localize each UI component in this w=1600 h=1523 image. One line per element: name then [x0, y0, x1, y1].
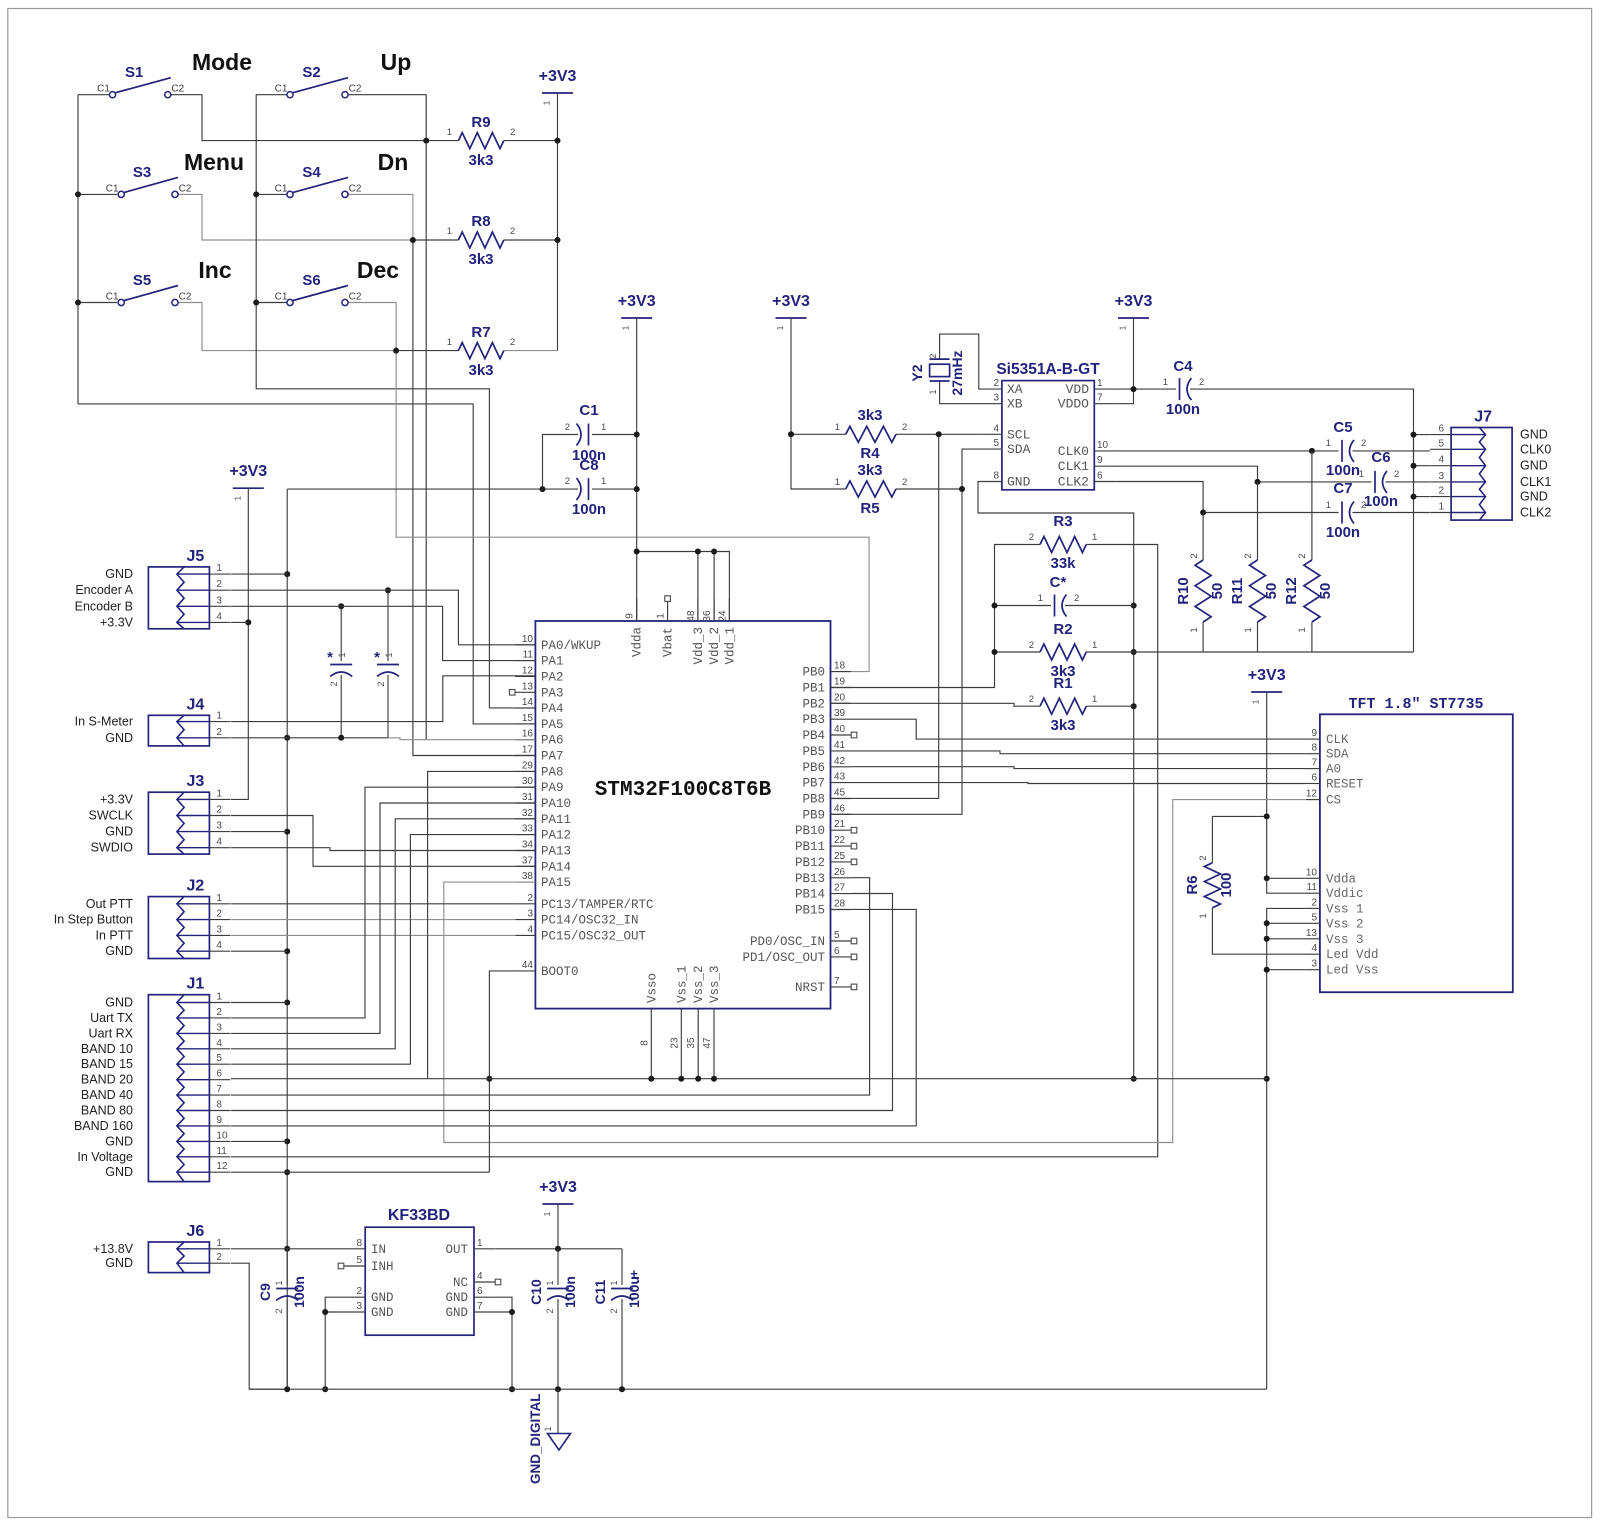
svg-text:PA11: PA11	[541, 813, 571, 827]
svg-text:7: 7	[1097, 393, 1103, 404]
svg-text:PB5: PB5	[802, 745, 825, 759]
wire J7 gnd collector	[1414, 435, 1430, 497]
junction Vss1	[678, 1076, 684, 1082]
svg-text:11: 11	[523, 650, 534, 661]
wire R4 pin2 SCL	[896, 433, 980, 435]
wire Encoder A to PA0	[231, 590, 535, 645]
svg-text:2: 2	[527, 893, 533, 904]
svg-text:4: 4	[1311, 943, 1317, 954]
svg-text:6: 6	[834, 946, 840, 957]
svg-text:7: 7	[477, 1301, 483, 1312]
wire SWCLK to PA14	[231, 816, 535, 867]
IC U3 TFT pins	[1306, 728, 1379, 978]
svg-text:C2: C2	[349, 84, 362, 95]
svg-text:2: 2	[902, 477, 907, 488]
label Dec	[357, 257, 399, 283]
svg-text:Up: Up	[381, 49, 412, 75]
svg-text:43: 43	[834, 772, 846, 783]
connector J7	[1430, 409, 1512, 521]
wire S4 C1 stub	[256, 193, 286, 195]
svg-text:Vdd_3: Vdd_3	[692, 627, 706, 665]
wire Vss3 down	[713, 1031, 715, 1079]
wire J1p12 row	[231, 1171, 489, 1173]
svg-text:C10: C10	[528, 1279, 544, 1305]
IC U2 STM32F100C8T6B box	[535, 621, 830, 1009]
wire gnd digital stem	[557, 1389, 559, 1433]
wire S2 C2 to R9	[348, 95, 426, 141]
wire Vdda rail	[636, 318, 638, 621]
svg-text:S1: S1	[125, 64, 143, 81]
wire R4 pin1	[791, 433, 846, 435]
wire In Step to PC14	[231, 919, 515, 921]
junction gnd J1p1	[284, 1000, 290, 1006]
svg-text:4: 4	[216, 1038, 222, 1049]
wire S1 C1 feed	[78, 94, 109, 96]
svg-text:1: 1	[1198, 913, 1209, 918]
wire CLK2 cap to J7	[1353, 512, 1430, 514]
wire R9 pin1	[426, 140, 458, 142]
wire R4 rail to R5	[791, 434, 846, 489]
svg-text:+: +	[630, 1266, 638, 1281]
svg-text:1: 1	[447, 127, 452, 138]
svg-text:4: 4	[216, 611, 222, 622]
svg-text:R6: R6	[1184, 875, 1201, 894]
svg-text:2: 2	[565, 422, 570, 433]
svg-text:Vddic: Vddic	[1326, 887, 1364, 901]
wire left bus lower to PA5	[78, 404, 535, 724]
svg-text:PC15/OSC32_OUT: PC15/OSC32_OUT	[541, 929, 647, 943]
wire R6 bottom to LedVdd	[1212, 908, 1306, 954]
svg-text:1: 1	[835, 422, 840, 433]
wire S2 C1 bus to PA4	[256, 95, 535, 708]
wire KF gnd7	[495, 1311, 512, 1313]
svg-text:PB0: PB0	[802, 666, 825, 680]
svg-text:C1: C1	[275, 84, 288, 95]
junction VDD rail	[1131, 386, 1137, 392]
svg-text:2: 2	[928, 353, 938, 358]
svg-text:2: 2	[216, 1252, 222, 1263]
svg-text:+3V3: +3V3	[1248, 667, 1286, 684]
wire Cstar pin2	[1065, 605, 1134, 607]
wire R1 pin1	[1086, 705, 1133, 707]
svg-text:12: 12	[522, 665, 534, 676]
svg-text:10: 10	[1097, 440, 1109, 451]
svg-text:J7: J7	[1474, 409, 1492, 426]
svg-text:1: 1	[1092, 694, 1097, 705]
svg-text:1: 1	[656, 613, 667, 619]
svg-text:Encoder B: Encoder B	[75, 599, 133, 613]
svg-text:C8: C8	[579, 457, 598, 474]
svg-text:2: 2	[902, 422, 907, 433]
junction C8 pin1 rail	[634, 486, 640, 492]
svg-text:GND: GND	[105, 1165, 133, 1179]
svg-text:9: 9	[1311, 728, 1317, 739]
wire BOOT0 down	[489, 971, 515, 1172]
svg-text:21: 21	[834, 819, 846, 830]
wire SWDIO to PA13	[231, 848, 535, 851]
svg-text:Inc: Inc	[198, 257, 231, 283]
wire R1 pin2 PB2	[831, 703, 1041, 706]
wire KF gnd3	[325, 1311, 344, 1313]
wire TFT Vdda	[1267, 877, 1306, 879]
resistor R9	[447, 114, 516, 169]
svg-text:BAND 15: BAND 15	[81, 1057, 133, 1071]
capacitor C10	[528, 1276, 578, 1313]
svg-text:2: 2	[216, 1007, 222, 1018]
svg-text:100n: 100n	[1326, 524, 1360, 541]
resistor R10	[1175, 553, 1226, 632]
svg-text:10: 10	[216, 1130, 228, 1141]
svg-text:1: 1	[216, 1238, 222, 1249]
capacitor C4	[1163, 358, 1205, 418]
wire XA crystal loop	[940, 334, 980, 389]
resistor R2	[1029, 621, 1098, 680]
svg-text:INH: INH	[371, 1260, 394, 1274]
svg-text:GND: GND	[445, 1291, 468, 1305]
wire XB crystal	[940, 381, 980, 404]
svg-text:25: 25	[834, 851, 846, 862]
wire J5p1 gnd	[231, 573, 287, 575]
svg-text:PA13: PA13	[541, 845, 571, 859]
junction gnd J2p4	[284, 948, 290, 954]
power +3V3 TFT	[1248, 667, 1286, 704]
svg-text:2: 2	[216, 579, 222, 590]
svg-text:PA2: PA2	[541, 670, 564, 684]
wire C4 pin2	[1190, 389, 1414, 652]
svg-text:1: 1	[1439, 502, 1445, 513]
svg-text:1: 1	[543, 1426, 553, 1431]
svg-text:BAND 160: BAND 160	[74, 1119, 133, 1133]
svg-text:1: 1	[337, 652, 347, 657]
resistor R12	[1283, 553, 1334, 632]
svg-text:Dec: Dec	[357, 257, 399, 283]
junction gnd J4p2	[284, 735, 290, 741]
svg-text:C2: C2	[171, 84, 184, 95]
wire BAND40 to PB13	[231, 878, 870, 1095]
wire R11 bottom	[1257, 622, 1259, 652]
svg-text:48: 48	[686, 610, 697, 622]
svg-text:Vsso: Vsso	[645, 973, 659, 1003]
wire gnd bus	[489, 1078, 1266, 1080]
wire R8 junction down PA7	[413, 240, 536, 756]
svg-text:100n: 100n	[291, 1276, 307, 1308]
wire BAND80 to PB14	[231, 894, 893, 1111]
label Inc	[198, 257, 231, 283]
svg-text:KF33BD: KF33BD	[388, 1207, 450, 1224]
junction S3 C1 bus	[75, 191, 81, 197]
wire J6p1 to IN	[231, 1248, 344, 1250]
label Menu	[184, 149, 244, 175]
wire PA8 riser to BAND20	[428, 771, 536, 1078]
svg-text:In S-Meter: In S-Meter	[75, 715, 133, 729]
svg-text:6: 6	[477, 1286, 483, 1297]
svg-text:1: 1	[601, 476, 606, 487]
svg-text:2: 2	[510, 337, 515, 348]
svg-text:PB4: PB4	[802, 729, 825, 743]
svg-text:Led Vss: Led Vss	[1326, 964, 1379, 978]
wire R11 top	[1257, 482, 1259, 560]
svg-text:46: 46	[834, 803, 846, 814]
capacitor C*	[1038, 574, 1080, 617]
svg-text:CS: CS	[1326, 794, 1341, 808]
svg-text:XB: XB	[1007, 397, 1023, 412]
svg-text:R2: R2	[1053, 621, 1072, 638]
svg-text:Vdda: Vdda	[631, 627, 645, 658]
switch S1	[97, 64, 185, 98]
junction S6 C1 bus	[253, 300, 259, 306]
junction J7 gnd4	[1411, 463, 1417, 469]
svg-text:S4: S4	[302, 164, 321, 181]
svg-text:7: 7	[834, 976, 840, 987]
svg-text:28: 28	[834, 899, 846, 910]
wire CLK1 cap to J7	[1386, 481, 1430, 483]
svg-text:R9: R9	[471, 114, 490, 131]
svg-text:1: 1	[1326, 500, 1331, 511]
wire TFT Vddic	[1267, 878, 1306, 893]
svg-text:22: 22	[834, 835, 846, 846]
svg-text:S2: S2	[302, 64, 320, 81]
junction OUT rail	[555, 1246, 561, 1252]
labels J6	[93, 1242, 134, 1270]
junction capB top	[385, 587, 391, 593]
wire S4 C2 to R8	[348, 194, 413, 240]
wire C10 bottom	[557, 1299, 559, 1389]
svg-text:18: 18	[834, 661, 846, 672]
svg-text:Led Vdd: Led Vdd	[1326, 948, 1379, 962]
svg-text:8: 8	[216, 1100, 222, 1111]
wire TFT LedVss	[1267, 969, 1306, 971]
svg-text:38: 38	[522, 871, 534, 882]
wire VDDO to rail	[1116, 389, 1133, 404]
wire Vss2 down	[697, 1031, 699, 1079]
svg-text:1: 1	[835, 477, 840, 488]
svg-text:4: 4	[527, 924, 533, 935]
junction R5 SDA	[959, 486, 965, 492]
svg-text:5: 5	[993, 438, 999, 449]
svg-text:R10: R10	[1175, 577, 1192, 605]
svg-text:50: 50	[1209, 583, 1226, 600]
wire R8 pin1	[413, 239, 459, 241]
power +3V3 Si5351	[1115, 293, 1153, 330]
svg-text:1: 1	[621, 325, 631, 330]
junction C8 pin2	[540, 486, 546, 492]
wire S5 C2 to R7 row	[178, 303, 396, 351]
connector J6	[148, 1223, 230, 1273]
svg-text:1: 1	[1038, 593, 1043, 604]
svg-text:S3: S3	[133, 164, 151, 181]
svg-text:GND: GND	[105, 567, 133, 581]
svg-text:29: 29	[522, 760, 534, 771]
svg-text:2: 2	[510, 226, 515, 237]
power +3V3 R4 rail	[772, 293, 810, 330]
svg-text:4: 4	[477, 1271, 483, 1282]
svg-text:12: 12	[1306, 789, 1318, 800]
svg-text:5: 5	[1311, 912, 1317, 923]
junction SCL riser	[936, 431, 942, 437]
svg-text:Vbat: Vbat	[662, 627, 676, 657]
resistor R6	[1184, 855, 1235, 918]
resistor R3	[1029, 513, 1098, 572]
wire Encoder B to PA1	[231, 606, 535, 660]
svg-text:100: 100	[1218, 872, 1235, 897]
junction CLK2 R10	[1200, 510, 1206, 516]
svg-text:1: 1	[542, 100, 552, 105]
svg-text:2: 2	[329, 681, 339, 686]
svg-text:SWCLK: SWCLK	[89, 809, 134, 823]
svg-text:3k3: 3k3	[468, 362, 493, 379]
svg-text:BOOT0: BOOT0	[541, 965, 579, 979]
svg-text:5: 5	[834, 930, 840, 941]
svg-text:100n: 100n	[1326, 462, 1360, 479]
wire R5 pin2	[896, 488, 962, 490]
svg-text:A0: A0	[1326, 763, 1341, 777]
svg-text:PA8: PA8	[541, 765, 564, 779]
svg-text:GND: GND	[105, 944, 133, 958]
svg-text:2: 2	[1394, 469, 1399, 480]
wire S6 C2 to R7	[348, 303, 396, 351]
connector J5	[148, 548, 230, 629]
svg-text:3: 3	[216, 924, 222, 935]
IC U4 KF33BD pins	[338, 1238, 501, 1320]
junction CLK1 R11	[1255, 479, 1261, 485]
svg-text:14: 14	[522, 697, 534, 708]
svg-text:PA5: PA5	[541, 718, 564, 732]
wire BAND160 to PB15	[231, 909, 916, 1126]
junction R7 pin1	[393, 348, 399, 354]
wire Cstar pin1	[995, 605, 1052, 607]
IC U1 Si5351 pins	[980, 378, 1116, 489]
svg-text:R4: R4	[860, 445, 880, 462]
svg-text:1: 1	[1359, 469, 1364, 480]
wire cap B lead top	[387, 590, 389, 661]
svg-text:GND: GND	[371, 1306, 394, 1320]
junction gnd rail R2	[1131, 649, 1137, 655]
svg-text:1: 1	[216, 711, 222, 722]
labels J4	[75, 715, 133, 745]
svg-text:2: 2	[609, 1308, 619, 1313]
wire S1 C2 to R9 row	[171, 95, 426, 141]
svg-text:5: 5	[356, 1255, 362, 1266]
svg-text:5: 5	[1439, 438, 1445, 449]
svg-text:1: 1	[545, 1280, 555, 1285]
junction C11 bus	[619, 1386, 625, 1392]
svg-text:1: 1	[1092, 640, 1097, 651]
svg-text:11: 11	[216, 1146, 227, 1157]
svg-text:3: 3	[527, 909, 533, 920]
svg-text:12: 12	[216, 1161, 228, 1172]
svg-text:1: 1	[216, 893, 222, 904]
wire left gnd bus	[286, 489, 288, 1389]
svg-text:PB6: PB6	[802, 761, 825, 775]
svg-text:PA9: PA9	[541, 781, 564, 795]
wire PB3 to TFT CLK	[851, 719, 1306, 739]
svg-text:PB12: PB12	[795, 856, 825, 870]
svg-text:S5: S5	[133, 272, 151, 289]
svg-text:5: 5	[216, 1053, 222, 1064]
svg-text:CLK2: CLK2	[1520, 506, 1551, 520]
resistor R7	[447, 324, 516, 379]
svg-text:2: 2	[1439, 486, 1445, 497]
junction BOOT0 gndbus	[486, 1076, 492, 1082]
capacitor C5	[1326, 419, 1367, 479]
svg-text:R11: R11	[1229, 578, 1246, 605]
svg-text:2: 2	[1029, 640, 1034, 651]
wire In PTT to PC15	[231, 934, 515, 936]
wire Vsso down	[650, 1031, 652, 1079]
svg-text:1: 1	[928, 389, 938, 394]
svg-text:GND: GND	[105, 1256, 133, 1270]
svg-text:1: 1	[216, 992, 222, 1003]
junction Vsso	[648, 1076, 654, 1082]
svg-text:CLK1: CLK1	[1520, 475, 1551, 489]
svg-text:+3V3: +3V3	[618, 293, 656, 310]
svg-text:Menu: Menu	[184, 149, 244, 175]
resistor R8	[447, 213, 516, 268]
svg-text:1: 1	[447, 337, 452, 348]
svg-text:50: 50	[1317, 583, 1334, 600]
svg-text:Dn: Dn	[378, 149, 409, 175]
svg-text:26: 26	[834, 867, 846, 878]
junction J5 pin4 3v3	[245, 619, 251, 625]
svg-text:2: 2	[1074, 593, 1079, 604]
wire Vdd2 stub	[713, 552, 715, 622]
svg-text:GND: GND	[371, 1291, 394, 1305]
junction gnd J1p12	[284, 1169, 290, 1175]
wire R8 pin2 to rail	[504, 239, 558, 241]
resistor R11	[1229, 553, 1280, 632]
svg-text:1: 1	[1243, 627, 1254, 632]
svg-text:C7: C7	[1333, 480, 1352, 497]
svg-text:Vss 1: Vss 1	[1326, 902, 1364, 916]
wire PB6 to TFT A0	[851, 767, 1306, 769]
svg-text:Vss_1: Vss_1	[675, 965, 689, 1003]
svg-text:Vdd_2: Vdd_2	[708, 627, 722, 665]
power +3V3 J5/J3 rail	[229, 463, 267, 500]
svg-text:PB11: PB11	[795, 840, 825, 854]
resistor R4	[835, 407, 908, 462]
connector J1	[148, 976, 230, 1182]
svg-text:PA3: PA3	[541, 686, 564, 700]
svg-text:4: 4	[1439, 455, 1445, 466]
switch S3	[106, 164, 192, 198]
svg-text:GND: GND	[105, 731, 133, 745]
power +3V3 Vdda rail	[618, 293, 656, 330]
svg-text:1: 1	[384, 652, 394, 657]
svg-text:11: 11	[1307, 882, 1318, 893]
junction gnd J6p1C9	[284, 1246, 290, 1252]
wire PB5 to TFT SDA	[851, 751, 1306, 754]
wire R9 junction down to PA6 row	[425, 141, 427, 740]
junction KF gnd7	[509, 1309, 515, 1315]
svg-text:100n: 100n	[572, 501, 606, 518]
svg-text:1: 1	[1189, 627, 1200, 632]
junction J7 gnd6	[1411, 432, 1417, 438]
labels J1	[74, 996, 134, 1180]
resistor R5	[835, 462, 908, 517]
svg-text:Vdd_1: Vdd_1	[723, 627, 737, 665]
wire J7 gnd mid	[1414, 465, 1430, 467]
svg-text:1: 1	[274, 1280, 284, 1285]
junction S5 C1 bus	[75, 300, 81, 306]
svg-text:PB9: PB9	[802, 808, 825, 822]
svg-text:3: 3	[1439, 471, 1445, 482]
svg-text:In Voltage: In Voltage	[77, 1150, 133, 1164]
svg-text:Vdda: Vdda	[1326, 872, 1357, 886]
svg-text:+3.3V: +3.3V	[100, 792, 134, 806]
junction Vss3b	[711, 1076, 717, 1082]
svg-text:J2: J2	[187, 878, 205, 895]
svg-text:30: 30	[522, 776, 534, 787]
